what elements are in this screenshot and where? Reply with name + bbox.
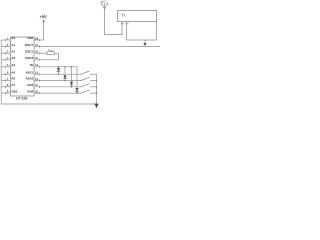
svg-text:16: 16 [35, 50, 39, 54]
svg-text:AD8: AD8 [27, 89, 33, 93]
svg-text:A4: A4 [11, 63, 15, 67]
svg-text:13: 13 [35, 71, 39, 75]
svg-text:17: 17 [35, 43, 39, 47]
svg-text:15: 15 [35, 56, 39, 60]
svg-text:AD9: AD9 [27, 83, 33, 87]
svg-text:A1: A1 [11, 43, 15, 47]
svg-text:AD10: AD10 [26, 77, 34, 81]
svg-text:VDD: VDD [27, 36, 34, 40]
svg-text:18: 18 [35, 36, 39, 40]
svg-text:DOUT: DOUT [25, 43, 34, 47]
svg-text:A0: A0 [11, 36, 15, 40]
svg-text:+5V: +5V [40, 14, 48, 19]
svg-text:AD11: AD11 [26, 70, 34, 74]
svg-text:A5: A5 [11, 70, 15, 74]
svg-text:A7: A7 [11, 83, 15, 87]
svg-text:14: 14 [35, 63, 39, 67]
svg-text:A6: A6 [11, 77, 15, 81]
svg-text:ANT: ANT [101, 0, 107, 3]
svg-text:OSC2: OSC2 [25, 56, 34, 60]
svg-text:10: 10 [35, 89, 39, 93]
svg-text:12: 12 [35, 77, 39, 81]
svg-text:Tx: Tx [121, 12, 125, 17]
svg-text:11: 11 [35, 83, 38, 87]
svg-text:osc: osc [50, 49, 53, 52]
svg-text:A2: A2 [11, 49, 15, 53]
svg-text:A3: A3 [11, 56, 15, 60]
svg-text:TE: TE [29, 63, 33, 67]
svg-text:HT12E: HT12E [16, 96, 28, 100]
svg-text:OSC1: OSC1 [25, 49, 34, 53]
svg-text:VSS: VSS [11, 89, 17, 93]
